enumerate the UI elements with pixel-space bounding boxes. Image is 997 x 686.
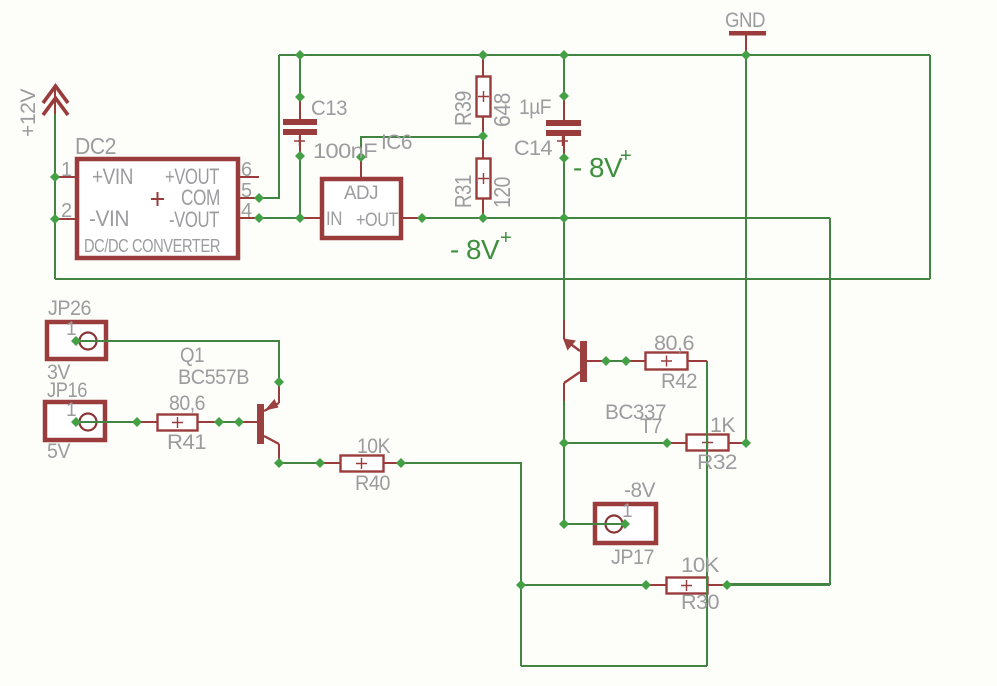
wire T7 collector: [563, 218, 565, 321]
IC6 IN stub: [304, 217, 320, 219]
wire R42 right down: [706, 361, 708, 666]
svg-text:R31: R31: [450, 175, 476, 208]
wire R40 left: [279, 462, 320, 464]
DC2 pin 1 stub: [57, 176, 75, 178]
R32 stubs: [667, 442, 746, 444]
svg-text:GND: GND: [725, 9, 765, 32]
Q1 base stub: [239, 421, 257, 423]
svg-text:C14: C14: [514, 137, 553, 160]
wire pin4 to IC6 IN: [259, 217, 304, 219]
svg-text:R42: R42: [661, 370, 697, 393]
svg-text:+OUT: +OUT: [356, 210, 399, 231]
connector JP17 box: [595, 504, 656, 543]
svg-text:JP17: JP17: [611, 546, 654, 569]
svg-text:R39: R39: [450, 91, 476, 126]
RED PIN STUBS: [55, 35, 746, 585]
resistor R32: [687, 435, 729, 451]
C14 pin stubs: [563, 96, 565, 158]
wire T7 emitter to JP17: [563, 400, 565, 524]
svg-text:+: +: [620, 145, 631, 167]
T7 emitter top red: [563, 320, 565, 339]
svg-text:10K: 10K: [357, 435, 390, 458]
op-amp regulator IC6 box: [322, 179, 401, 238]
svg-text:1: 1: [622, 501, 632, 522]
wire C13 top: [299, 55, 301, 97]
resistor R39: [477, 77, 491, 117]
svg-text:5V: 5V: [47, 440, 70, 463]
svg-text:- 8V: - 8V: [450, 234, 500, 265]
svg-text:BC557B: BC557B: [178, 366, 249, 389]
wire C13 bottom: [299, 156, 301, 218]
svg-text:R32: R32: [697, 451, 737, 474]
svg-text:+VIN: +VIN: [92, 164, 133, 189]
svg-text:80,6: 80,6: [169, 392, 205, 415]
svg-text:6: 6: [241, 159, 252, 181]
wire T7 base segment: [606, 360, 626, 362]
transistor Q1 BC557B: [257, 399, 279, 444]
svg-text:R40: R40: [355, 472, 390, 495]
R41 stubs: [137, 421, 219, 423]
wire C14 top: [563, 55, 565, 96]
svg-text:T7: T7: [640, 415, 662, 438]
IC6 ADJ stub: [360, 157, 362, 177]
IC6 OUT stub: [403, 217, 420, 219]
svg-text:R30: R30: [681, 591, 719, 614]
svg-text:80,6: 80,6: [654, 332, 694, 355]
wire right vertical: [929, 55, 931, 279]
wire row to R32: [564, 442, 667, 444]
capacitor C14: [546, 120, 581, 146]
svg-text:100nF: 100nF: [313, 140, 377, 163]
wire R40 right down: [401, 463, 521, 666]
wire JP17 row: [564, 523, 625, 525]
svg-text:DC2: DC2: [75, 133, 116, 159]
wire ADJ node: [361, 137, 483, 157]
svg-text:1: 1: [61, 159, 72, 181]
wire pin5 to top bus: [259, 55, 279, 198]
R30 stubs: [646, 584, 727, 586]
DC2 pin 4 stub: [240, 217, 259, 219]
svg-text:-8V: -8V: [624, 479, 655, 502]
svg-text:-VOUT: -VOUT: [169, 207, 219, 232]
wire C14 bottom: [563, 158, 565, 218]
R39 pin stubs: [482, 56, 484, 218]
svg-text:C13: C13: [311, 97, 347, 120]
wire R30 row right: [727, 584, 830, 586]
DC2 pin 5 stub: [240, 197, 259, 199]
svg-text:4: 4: [241, 200, 252, 222]
svg-text:10K: 10K: [681, 554, 720, 577]
svg-text:ADJ: ADJ: [344, 183, 378, 204]
DC2 pin 2 stub: [57, 218, 75, 220]
svg-text:DC/DC CONVERTER: DC/DC CONVERTER: [84, 236, 220, 256]
svg-text:JP26: JP26: [48, 297, 91, 320]
wire R30 row left: [521, 584, 646, 586]
resistor R30: [667, 578, 708, 594]
Q1 collector red: [278, 444, 280, 463]
T7 collector red: [563, 383, 565, 401]
svg-text:+: +: [500, 227, 511, 249]
svg-text:648: 648: [489, 93, 515, 127]
GND stub: [745, 35, 747, 55]
svg-text:2: 2: [61, 200, 72, 222]
resistor R31: [477, 159, 491, 199]
resistor R42: [646, 353, 688, 370]
wire OUT row: [422, 217, 830, 219]
svg-text:Q1: Q1: [180, 344, 204, 367]
svg-text:5: 5: [241, 180, 252, 202]
T7 base stub: [587, 360, 606, 362]
svg-text:-VIN: -VIN: [89, 206, 129, 231]
svg-text:R41: R41: [167, 431, 206, 454]
svg-text:IN: IN: [326, 209, 342, 230]
svg-text:1K: 1K: [710, 414, 735, 437]
Q1 emitter red: [278, 382, 280, 403]
ground symbol GND bar: [729, 31, 766, 36]
svg-text:1µF: 1µF: [519, 96, 551, 119]
svg-text:JP16: JP16: [47, 379, 87, 402]
wire bottom horizontal: [521, 665, 707, 667]
supply symbol +12V arrows: [43, 86, 68, 115]
connector JP16 box: [45, 402, 105, 440]
svg-text:+12V: +12V: [17, 89, 40, 137]
wire GND vertical: [745, 55, 747, 443]
C13 pin stubs: [299, 97, 301, 156]
svg-text:IC6: IC6: [381, 131, 412, 154]
DC2 pin 6 stub: [240, 176, 259, 178]
wire left vertical from +12V: [54, 113, 56, 279]
resistor R40: [341, 456, 384, 472]
resistor R41: [158, 415, 198, 431]
connector JP26 box: [47, 322, 106, 359]
wire top GND bus: [279, 54, 930, 56]
wire -8V bus horizontal: [55, 278, 930, 280]
svg-text:1: 1: [66, 319, 76, 340]
svg-text:- 8V: - 8V: [573, 152, 623, 183]
R42 stubs: [626, 360, 707, 362]
transistor T7 BC337: [563, 339, 587, 384]
DC2 dc/dc converter box: [77, 159, 238, 258]
wire R41 to Q1 base: [219, 421, 239, 423]
capacitor C13: [283, 119, 317, 146]
wire OUT right vertical: [727, 218, 830, 584]
+12V stub: [54, 88, 56, 114]
svg-text:1: 1: [66, 400, 76, 421]
R40 stubs: [320, 462, 401, 464]
wire JP26 to Q1: [76, 341, 279, 382]
wire JP16 to R41: [76, 421, 137, 423]
svg-text:120: 120: [489, 177, 515, 208]
